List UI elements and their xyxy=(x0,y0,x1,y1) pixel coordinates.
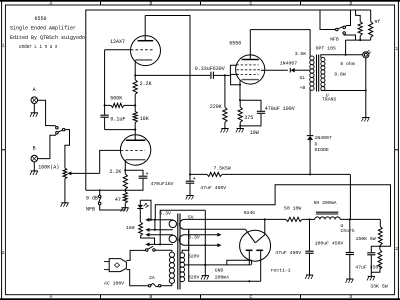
label 47uF 450V rect xyxy=(275,250,301,256)
label 12AX7 xyxy=(110,39,125,45)
label 9.8W xyxy=(334,72,346,78)
label 5V xyxy=(188,214,194,220)
resistor 150K 5W xyxy=(378,219,382,246)
svg-text:200mA: 200mA xyxy=(215,275,230,281)
resistor 375 10W xyxy=(238,100,242,128)
capacitor 47uF 350V xyxy=(367,246,380,272)
label recti-1 xyxy=(271,267,291,273)
wire AC neutral xyxy=(126,270,148,286)
heater arrow 6550 bottom xyxy=(185,243,222,247)
zone label 2 right xyxy=(395,246,398,252)
node secondary to jack xyxy=(365,89,367,91)
wire OPT primary bottom to B+ xyxy=(309,89,311,174)
svg-text:500K: 500K xyxy=(110,96,122,102)
node HV CT ground xyxy=(204,264,206,266)
resistor 18K xyxy=(133,105,137,129)
capacitor 470uF16V xyxy=(125,170,148,190)
svg-text:375: 375 xyxy=(244,115,253,121)
PT HV winding xyxy=(180,253,185,282)
5U4G anode right xyxy=(255,235,264,243)
wire filament right xyxy=(260,251,262,282)
switch SW2 0dB/NFB xyxy=(98,190,124,210)
svg-text:47uF 350V: 47uF 350V xyxy=(355,264,381,270)
zone label B bottom xyxy=(150,294,153,300)
label 6.3V right xyxy=(188,235,200,241)
capacitor 0.1uF xyxy=(100,105,135,129)
AC plug xyxy=(104,259,127,272)
pot wiper arrow xyxy=(67,172,100,176)
svg-text:GND: GND xyxy=(215,268,224,274)
wire NFB return long xyxy=(86,10,371,190)
ground jack B xyxy=(30,171,38,175)
node cathode resistor bottom xyxy=(124,189,126,191)
label 2A xyxy=(149,275,155,281)
node 18K bottom xyxy=(134,129,136,131)
diode D1 1N4007 UL xyxy=(290,68,310,73)
svg-text:5U4G: 5U4G xyxy=(244,210,256,216)
6550 plate xyxy=(242,30,259,60)
resistor 2.2K V1a cathode xyxy=(133,75,137,105)
tube V1b 12AX7 envelope xyxy=(120,135,150,165)
node rectifier B+ xyxy=(264,218,266,220)
label 470uF 100V xyxy=(265,106,295,112)
label 100K(A) xyxy=(38,165,59,171)
svg-text:2.2K: 2.2K xyxy=(140,81,152,87)
V1b cathode xyxy=(125,160,145,170)
svg-text:Chork: Chork xyxy=(341,228,356,234)
LED pilot xyxy=(137,200,148,208)
label 0.33uF630V xyxy=(195,66,225,72)
heater arrow 6550 top xyxy=(185,233,222,237)
svg-text:0 dB: 0 dB xyxy=(86,195,98,201)
svg-text:D: D xyxy=(350,1,353,7)
svg-text:8 ohm: 8 ohm xyxy=(340,61,355,67)
svg-text:100K(A): 100K(A) xyxy=(38,165,59,171)
wire speaker feed xyxy=(346,54,363,56)
ground 47uF rect xyxy=(305,275,313,279)
svg-text:9.8W: 9.8W xyxy=(334,72,346,78)
zone label C top xyxy=(250,1,253,7)
heater wire 1 xyxy=(145,218,173,222)
svg-text:6550: 6550 xyxy=(229,40,241,46)
ground pot xyxy=(61,203,69,207)
wire LED anode xyxy=(140,200,151,220)
label UL xyxy=(300,75,306,81)
node 47uF rect node xyxy=(308,218,310,220)
label 33K 5W xyxy=(370,284,387,290)
ground speaker jack xyxy=(362,118,370,122)
6550 g2 dashed xyxy=(237,69,262,71)
svg-text:0.33uF630V: 0.33uF630V xyxy=(195,66,225,72)
V1a grid dashed xyxy=(131,49,154,51)
wire B+ line xyxy=(190,173,350,175)
svg-text:2: 2 xyxy=(395,246,398,252)
svg-text:B: B xyxy=(33,145,36,151)
svg-text:Single Ended Amplifier: Single Ended Amplifier xyxy=(10,25,76,31)
label 3.5K primary xyxy=(295,51,307,57)
svg-text:+B: +B xyxy=(300,85,306,91)
svg-text:A: A xyxy=(50,1,53,7)
PT primary winding AC xyxy=(169,252,174,283)
ground divider xyxy=(367,276,375,280)
label 470uF16V xyxy=(151,181,174,187)
svg-text:0.1uF: 0.1uF xyxy=(110,116,125,122)
wire anode right drop xyxy=(264,219,266,234)
label 2.2K xyxy=(140,81,152,87)
label 5U4G xyxy=(244,210,256,216)
title Single Ended Amplifier xyxy=(10,25,76,31)
svg-text:AC 100V: AC 100V xyxy=(104,281,124,287)
wire grid node to 6550 xyxy=(225,65,236,75)
resistor 50 10W xyxy=(286,217,302,221)
svg-text:5H 200mA: 5H 200mA xyxy=(314,200,337,206)
capacitor 0.33uF630V xyxy=(211,72,225,79)
label 18K xyxy=(140,116,149,122)
zone label D top xyxy=(350,1,353,7)
node NFB to speaker xyxy=(345,54,347,56)
node 6.3V ground xyxy=(204,244,206,246)
PT core xyxy=(178,214,180,290)
wire heater4 to bus xyxy=(160,210,205,244)
svg-text:6.3V: 6.3V xyxy=(188,235,200,241)
choke 5H 200mA xyxy=(315,212,340,219)
tube 5U4G envelope xyxy=(240,230,271,261)
svg-text:470uF 100V: 470uF 100V xyxy=(265,106,295,112)
svg-text:UL: UL xyxy=(300,75,306,81)
svg-text:Edited By QTBSch suigyodo: Edited By QTBSch suigyodo xyxy=(10,35,85,41)
label 47 xyxy=(115,197,121,203)
wire heater elevation loop xyxy=(155,185,390,247)
label Rf xyxy=(375,19,381,25)
resistor Ra feedback xyxy=(358,22,362,41)
PT 5V winding xyxy=(180,219,185,229)
label 200mA xyxy=(215,275,230,281)
svg-text:B: B xyxy=(150,1,153,7)
wire NFB bottom rail xyxy=(346,40,371,55)
zone label A bottom xyxy=(50,294,53,300)
svg-text:47uF 450V: 47uF 450V xyxy=(200,185,226,191)
svg-text:NFB: NFB xyxy=(86,206,95,212)
title Edited By QTBSch suigyodo xyxy=(10,35,85,41)
wire 6550 g2 to diode xyxy=(261,69,288,71)
label 100uF 450V xyxy=(315,240,344,246)
node B+ OPT drop xyxy=(309,173,311,175)
svg-text:10W: 10W xyxy=(250,130,259,136)
label NFB top xyxy=(330,37,339,43)
5U4G filament xyxy=(246,249,263,251)
svg-text:TRANS: TRANS xyxy=(322,97,337,103)
svg-text:Rf: Rf xyxy=(375,19,381,25)
V1b plate xyxy=(126,130,146,141)
wire throw1 to top rail xyxy=(345,10,350,27)
svg-text:320V: 320V xyxy=(188,254,200,260)
wire 5V return xyxy=(189,229,261,281)
svg-text:OPT 10S: OPT 10S xyxy=(316,45,336,51)
label 47uF 350V xyxy=(355,264,381,270)
label 5H 200mA xyxy=(314,200,337,206)
wire V1a plate to B+ riser xyxy=(145,16,190,175)
svg-text:47uF 450V: 47uF 450V xyxy=(275,250,301,256)
node 375 bottom xyxy=(239,125,241,127)
6550 cathode xyxy=(240,80,259,100)
svg-text:C: C xyxy=(250,294,253,300)
svg-text:NFB: NFB xyxy=(330,37,339,43)
svg-text:6.3V: 6.3V xyxy=(159,211,171,217)
svg-text:A: A xyxy=(33,87,36,93)
title under Linux xyxy=(19,44,58,50)
OPT core xyxy=(317,55,319,92)
label 6.3V left xyxy=(159,211,171,217)
wire 6550 plate to OPT xyxy=(250,30,310,57)
zone label 2 left xyxy=(2,250,5,256)
node NFB tap xyxy=(99,189,101,191)
label GND xyxy=(215,268,224,274)
wire B+ riser from choke xyxy=(349,174,351,219)
node V1b cathode xyxy=(124,169,126,171)
wire B+ rail xyxy=(185,218,381,220)
capacitor 470uF 100V xyxy=(240,100,265,126)
label 2.2K V1b xyxy=(109,169,121,175)
node g3 cathode tie xyxy=(239,84,241,86)
label 0.1uF xyxy=(110,116,125,122)
wire OPT secondary bottom xyxy=(321,90,366,92)
wire filament left xyxy=(248,251,250,265)
label DIODE xyxy=(315,147,330,153)
V1a cathode xyxy=(135,60,152,75)
ground bus symbol xyxy=(201,276,209,280)
svg-text:7.5K5W: 7.5K5W xyxy=(214,166,231,172)
svg-text:150K 5W: 150K 5W xyxy=(356,236,376,242)
switch SW4 power xyxy=(146,246,172,252)
wire filament bump xyxy=(227,260,252,265)
zone label C bottom xyxy=(250,294,253,300)
ground 6550 cathode xyxy=(236,129,244,133)
capacitor 47uF 450V rect symbol xyxy=(305,219,313,274)
zone label D bottom xyxy=(350,294,353,300)
wire cathode node to coupling cap xyxy=(135,74,210,76)
input jack A xyxy=(31,97,38,113)
svg-text:DIODE: DIODE xyxy=(315,147,330,153)
fuse 2A xyxy=(148,283,171,287)
PT 6.3V right winding xyxy=(179,235,184,246)
node Ra bottom xyxy=(359,39,361,41)
label 1N4007 D2 xyxy=(315,135,332,141)
label AC 100V xyxy=(104,281,124,287)
svg-text:220K: 220K xyxy=(210,104,222,110)
zone label 1 right xyxy=(395,46,398,52)
svg-text:47: 47 xyxy=(115,197,121,203)
svg-text:1N4007: 1N4007 xyxy=(315,135,332,141)
wire AC hot xyxy=(126,250,145,260)
capacitor 47uF 450V first xyxy=(186,175,196,196)
input jack B xyxy=(31,155,38,170)
resistor 220K xyxy=(223,75,227,128)
OPT secondary winding xyxy=(321,57,325,90)
V1a grid wire xyxy=(105,50,131,105)
label 10W xyxy=(250,130,259,136)
svg-text:33K 5W: 33K 5W xyxy=(370,284,387,290)
svg-text:2A: 2A xyxy=(149,275,155,281)
label 500K xyxy=(110,96,122,102)
label Chork xyxy=(341,228,356,234)
label 0 dB xyxy=(86,195,98,201)
svg-text:18K: 18K xyxy=(140,116,149,122)
ground 220K xyxy=(221,129,229,133)
svg-text:recti-1: recti-1 xyxy=(271,267,291,273)
ground 100uF xyxy=(346,279,354,283)
V1b grid dashed xyxy=(121,149,145,151)
tube 6550 envelope xyxy=(236,55,265,84)
svg-text:50 10W: 50 10W xyxy=(284,205,301,211)
resistor 33K 5W xyxy=(371,246,382,276)
zone label A top xyxy=(50,1,53,7)
node choke out xyxy=(349,218,351,220)
heater wire 4 xyxy=(145,243,173,247)
resistor 180 xyxy=(139,209,143,236)
label 6550 tube xyxy=(229,40,241,46)
label D designator xyxy=(315,141,318,147)
potentiometer 100K(A) xyxy=(63,168,67,203)
svg-text:6550: 6550 xyxy=(35,16,47,22)
zone label B top xyxy=(150,1,153,7)
node heater 4 xyxy=(159,243,161,245)
diode D2 1N4007 xyxy=(307,133,313,142)
label 47uF 450V first xyxy=(200,185,226,191)
capacitor 100uF 450V xyxy=(346,219,354,278)
wire selector pole to volume pot xyxy=(65,130,70,168)
svg-text:A: A xyxy=(50,294,53,300)
resistor 7.5K5W xyxy=(207,172,222,176)
label 1N4007 UL xyxy=(280,60,297,66)
svg-text:3.5K: 3.5K xyxy=(295,51,307,57)
zone label 1 left xyxy=(2,43,5,49)
wire wiper to V1b grid xyxy=(100,150,121,173)
ground 47 resistor xyxy=(121,208,129,212)
label 150K 5W xyxy=(356,236,376,242)
label 375 xyxy=(244,115,253,121)
svg-text:2.2K: 2.2K xyxy=(109,169,121,175)
ground jack A xyxy=(30,113,38,117)
title 6550 xyxy=(35,16,47,22)
node B+ preamp xyxy=(189,174,191,176)
svg-text:100uF 450V: 100uF 450V xyxy=(315,240,344,246)
resistor 500K xyxy=(105,103,136,107)
label U choke designator xyxy=(341,223,344,229)
wire throw2 to bottom rail xyxy=(344,34,355,40)
label NFB switch xyxy=(86,206,95,212)
resistor Rf xyxy=(369,10,373,40)
switch SW3 NFB selector xyxy=(336,26,346,34)
OPT primary winding xyxy=(310,56,314,90)
label 180 xyxy=(126,225,135,231)
wire NFB node row xyxy=(86,189,126,191)
ground 47uF first xyxy=(186,196,194,200)
wire jack B to selector xyxy=(38,134,57,159)
svg-text:1: 1 xyxy=(395,46,398,52)
V1a plate xyxy=(138,16,154,41)
svg-text:B: B xyxy=(150,294,153,300)
label +B xyxy=(300,85,306,91)
wire HV center tap xyxy=(184,264,251,266)
svg-text:1N4007: 1N4007 xyxy=(280,60,297,66)
6550 g3 tie to cathode xyxy=(231,74,240,84)
6550 g1 dashed xyxy=(237,64,259,66)
label 320V top xyxy=(188,254,200,260)
label 50 10W xyxy=(284,205,301,211)
node filament left xyxy=(248,280,250,282)
wire 180 to heater return xyxy=(141,236,155,245)
tube V1a 12AX7 envelope xyxy=(131,36,161,66)
node V1a cathode out xyxy=(134,74,136,76)
svg-text:D: D xyxy=(315,141,318,147)
label 8 ohm xyxy=(340,61,355,67)
selector switch SW1 xyxy=(56,126,65,134)
svg-text:470uF16V: 470uF16V xyxy=(151,181,174,187)
node heater LED xyxy=(150,219,156,221)
resistor 47 xyxy=(123,190,127,207)
resistor 2.2K V1b cathode xyxy=(123,170,127,190)
label U trans designator xyxy=(326,93,329,99)
label 7.5K5W xyxy=(214,166,231,172)
node divider xyxy=(379,245,381,247)
speaker jack 8 ohm xyxy=(363,50,371,117)
wire Ra feed xyxy=(356,10,361,22)
label TRANS xyxy=(322,97,337,103)
svg-text:12AX7: 12AX7 xyxy=(110,39,125,45)
svg-text:2: 2 xyxy=(2,250,5,256)
wire OPT secondary top to speaker xyxy=(321,55,346,58)
wire NFB drop xyxy=(320,10,336,30)
wire jack A to selector xyxy=(38,100,57,127)
6550 g3 dashed xyxy=(237,73,259,75)
PT heater winding 6.3V left xyxy=(169,220,176,242)
svg-text:320V: 320V xyxy=(188,274,200,280)
label 320V bottom xyxy=(188,274,200,280)
svg-text:C: C xyxy=(250,1,253,7)
5U4G anode left xyxy=(245,229,255,243)
svg-text:under L i n u x: under L i n u x xyxy=(19,44,58,50)
svg-text:180: 180 xyxy=(126,225,135,231)
label A xyxy=(33,87,36,93)
label B xyxy=(33,145,36,151)
node 500K junction xyxy=(104,104,137,106)
heater wire 3 xyxy=(145,233,173,237)
node 6550 cathode xyxy=(239,99,241,101)
node 6550 grid xyxy=(224,74,226,76)
svg-text:1: 1 xyxy=(2,43,5,49)
label 220K xyxy=(210,104,222,110)
label OPT 10S xyxy=(316,45,336,51)
wire ground bus xyxy=(204,210,206,275)
heater wire 2 xyxy=(145,220,173,232)
wire HV top to rectifier xyxy=(182,229,245,253)
svg-text:D: D xyxy=(350,294,353,300)
node heater 2 xyxy=(154,229,156,231)
